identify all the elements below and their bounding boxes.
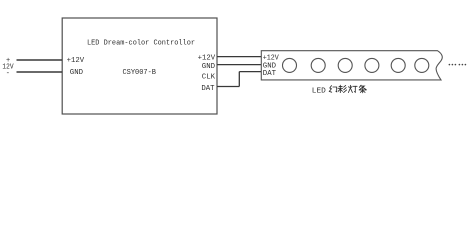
svg-text:GND: GND	[70, 69, 83, 77]
LED 4	[365, 58, 379, 72]
label: hanzi cai (彩) of strip caption	[338, 85, 347, 92]
LED strip body outline (torn right end)	[261, 51, 442, 80]
svg-text:LED: LED	[312, 87, 326, 95]
svg-text:CLK: CLK	[202, 73, 216, 81]
LED 1	[283, 58, 297, 72]
LED 2	[311, 58, 325, 72]
wire: DAT vertical riser	[238, 72, 240, 87]
LED 6	[415, 58, 429, 72]
wire: controller +12V out to strip	[217, 56, 261, 58]
wire: controller GND out to strip	[217, 64, 261, 66]
svg-text:DAT: DAT	[263, 70, 276, 78]
svg-text:CSY007-B: CSY007-B	[123, 69, 157, 77]
wire: +12V supply to controller	[17, 59, 63, 61]
label: hanzi deng (灯) of strip caption	[348, 85, 357, 92]
label: hanzi tiao (条) of strip caption	[359, 85, 366, 93]
wire: DAT horizontal upper segment to strip	[239, 71, 261, 73]
svg-text:+12V: +12V	[198, 54, 216, 62]
wire: controller DAT out, horizontal lower segment	[217, 86, 239, 88]
svg-text:LED Dream-color Controllor: LED Dream-color Controllor	[87, 40, 195, 48]
svg-text:+12V: +12V	[263, 55, 280, 63]
LED 3	[338, 58, 352, 72]
svg-text:DAT: DAT	[201, 85, 214, 93]
controller box U1 (LED Dream-color Controller)	[62, 18, 217, 114]
ellipsis dots (strip continues)	[449, 64, 467, 66]
svg-text:GND: GND	[202, 63, 215, 71]
LED 5	[391, 58, 405, 72]
label: hanzi huan (幻) of strip caption	[329, 86, 336, 93]
svg-text:-: -	[6, 70, 10, 78]
svg-text:+12V: +12V	[67, 57, 85, 65]
wire: GND supply to controller	[17, 71, 63, 73]
